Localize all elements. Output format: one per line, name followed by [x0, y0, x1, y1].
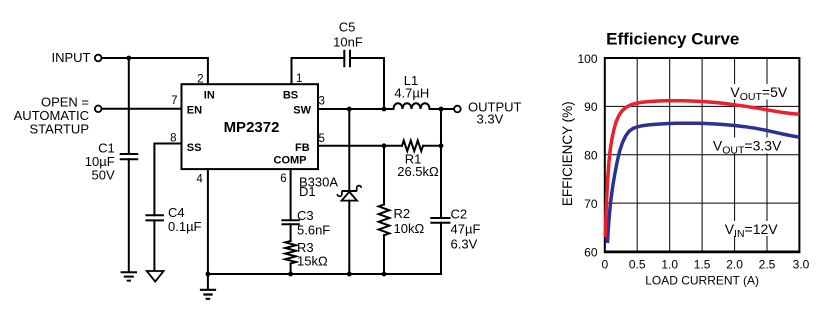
svg-text:6.3V: 6.3V [451, 237, 478, 252]
wire output branch down [440, 109, 442, 218]
svg-text:60: 60 [584, 245, 598, 259]
svg-text:IN: IN [204, 90, 215, 102]
svg-text:10kΩ: 10kΩ [394, 221, 425, 236]
svg-text:15kΩ: 15kΩ [297, 254, 328, 269]
wire C5 to SW node [350, 58, 384, 109]
chart horizontal gridlines [605, 106, 800, 203]
svg-text:3.0: 3.0 [793, 257, 810, 271]
svg-text:0: 0 [601, 257, 608, 271]
svg-text:3: 3 [319, 96, 325, 108]
svg-text:STARTUP: STARTUP [30, 121, 89, 136]
svg-text:50V: 50V [92, 168, 115, 183]
svg-text:70: 70 [584, 197, 598, 211]
svg-text:INPUT: INPUT [52, 50, 91, 65]
svg-text:8: 8 [170, 133, 176, 145]
curve VOUT=5V red [605, 101, 799, 237]
svg-text:5: 5 [319, 133, 325, 145]
svg-text:100: 100 [577, 52, 597, 66]
svg-text:Efficiency Curve: Efficiency Curve [606, 30, 739, 49]
svg-text:R2: R2 [394, 206, 411, 221]
node R2 rail junction [382, 272, 387, 277]
svg-text:SS: SS [187, 142, 202, 154]
capacitor C4 [146, 215, 163, 220]
resistor R3 [285, 241, 296, 263]
node COMP rail junction [288, 272, 293, 277]
wire input to C1 [128, 58, 130, 154]
svg-text:C5: C5 [339, 20, 356, 35]
wire R1 to output branch [424, 145, 442, 147]
svg-text:3.3V: 3.3V [477, 111, 504, 126]
wire C3 to R3 [290, 224, 292, 241]
svg-text:0.1µF: 0.1µF [168, 219, 202, 234]
svg-text:C2: C2 [451, 207, 468, 222]
label VIN=12V [722, 221, 778, 240]
ground (main) [200, 290, 216, 299]
wire SW [318, 108, 394, 110]
svg-text:4.7µH: 4.7µH [394, 85, 429, 100]
svg-text:2: 2 [197, 74, 203, 86]
ground (C1) [121, 272, 137, 280]
svg-text:C4: C4 [168, 205, 185, 220]
svg-text:COMP: COMP [274, 154, 307, 166]
svg-text:C3: C3 [297, 208, 314, 223]
wire pin4 down [207, 169, 209, 289]
wire input top run [102, 58, 208, 84]
svg-text:2.5: 2.5 [759, 257, 776, 271]
svg-text:BS: BS [283, 90, 298, 102]
node SW-D1 junction [347, 107, 352, 112]
resistor R2 [379, 205, 390, 236]
wire EN [102, 108, 182, 110]
node pin4 rail junction [206, 272, 211, 277]
svg-text:LOAD CURRENT (A): LOAD CURRENT (A) [645, 273, 759, 287]
wire C2 to rail [440, 223, 442, 274]
chart bottom axis emphasis [604, 252, 801, 254]
svg-text:2.0: 2.0 [726, 257, 743, 271]
curve VOUT=3.3V blue [608, 123, 800, 243]
label VOUT=3.3V [710, 138, 782, 157]
node EN terminal [95, 106, 102, 113]
svg-text:4: 4 [196, 173, 203, 185]
svg-text:90: 90 [584, 100, 598, 114]
capacitor C5 [344, 51, 350, 66]
svg-text:26.5kΩ: 26.5kΩ [397, 164, 439, 179]
wire C1 to ground [128, 159, 130, 271]
capacitor C1 [121, 154, 138, 159]
wire FB [318, 145, 402, 147]
wire BS to C5 [292, 58, 345, 84]
svg-text:1.5: 1.5 [694, 257, 711, 271]
IC U1 MP2372 [182, 84, 319, 169]
node R1-out junction [439, 143, 444, 148]
diode D1 B330A schottky [337, 109, 361, 274]
svg-text:47µF: 47µF [451, 222, 481, 237]
wire C4 to ground [153, 220, 155, 270]
svg-text:10nF: 10nF [333, 35, 363, 50]
svg-text:EN: EN [187, 104, 202, 116]
svg-text:1: 1 [296, 73, 302, 85]
wire COMP branch [290, 169, 292, 220]
wire L1 to output [430, 108, 455, 110]
node output junction [439, 107, 444, 112]
svg-text:EFFICIENCY (%): EFFICIENCY (%) [560, 101, 575, 206]
wire ground rail [208, 273, 441, 275]
capacitor C2 [431, 218, 449, 223]
wire SS to C4 [154, 144, 181, 216]
chart vertical gridlines [637, 58, 767, 252]
label VOUT=5V [727, 84, 789, 103]
svg-text:0.5: 0.5 [629, 257, 646, 271]
resistor R1 [402, 141, 423, 152]
svg-text:80: 80 [584, 149, 598, 163]
svg-text:7: 7 [171, 95, 177, 107]
node input junction [126, 56, 131, 61]
chart plot border [605, 58, 800, 252]
wire R2 branch [383, 146, 385, 205]
svg-text:5.6nF: 5.6nF [297, 222, 330, 237]
svg-text:6: 6 [280, 173, 286, 185]
inductor L1 [394, 103, 430, 109]
svg-text:D1: D1 [299, 184, 316, 199]
svg-text:MP2372: MP2372 [224, 119, 280, 136]
node D1 rail junction [347, 272, 352, 277]
node FB-R2 junction [382, 143, 387, 148]
node SW-C5 junction [382, 107, 387, 112]
svg-text:1.0: 1.0 [661, 257, 678, 271]
wire R3 to rail [290, 264, 292, 275]
capacitor C3 [282, 220, 298, 224]
svg-text:SW: SW [293, 104, 311, 116]
svg-text:FB: FB [295, 142, 310, 154]
node OUTPUT terminal [454, 106, 461, 113]
wire R2 to rail [383, 235, 385, 274]
node INPUT terminal [95, 55, 102, 62]
ground (C4 triangle) [147, 271, 164, 282]
